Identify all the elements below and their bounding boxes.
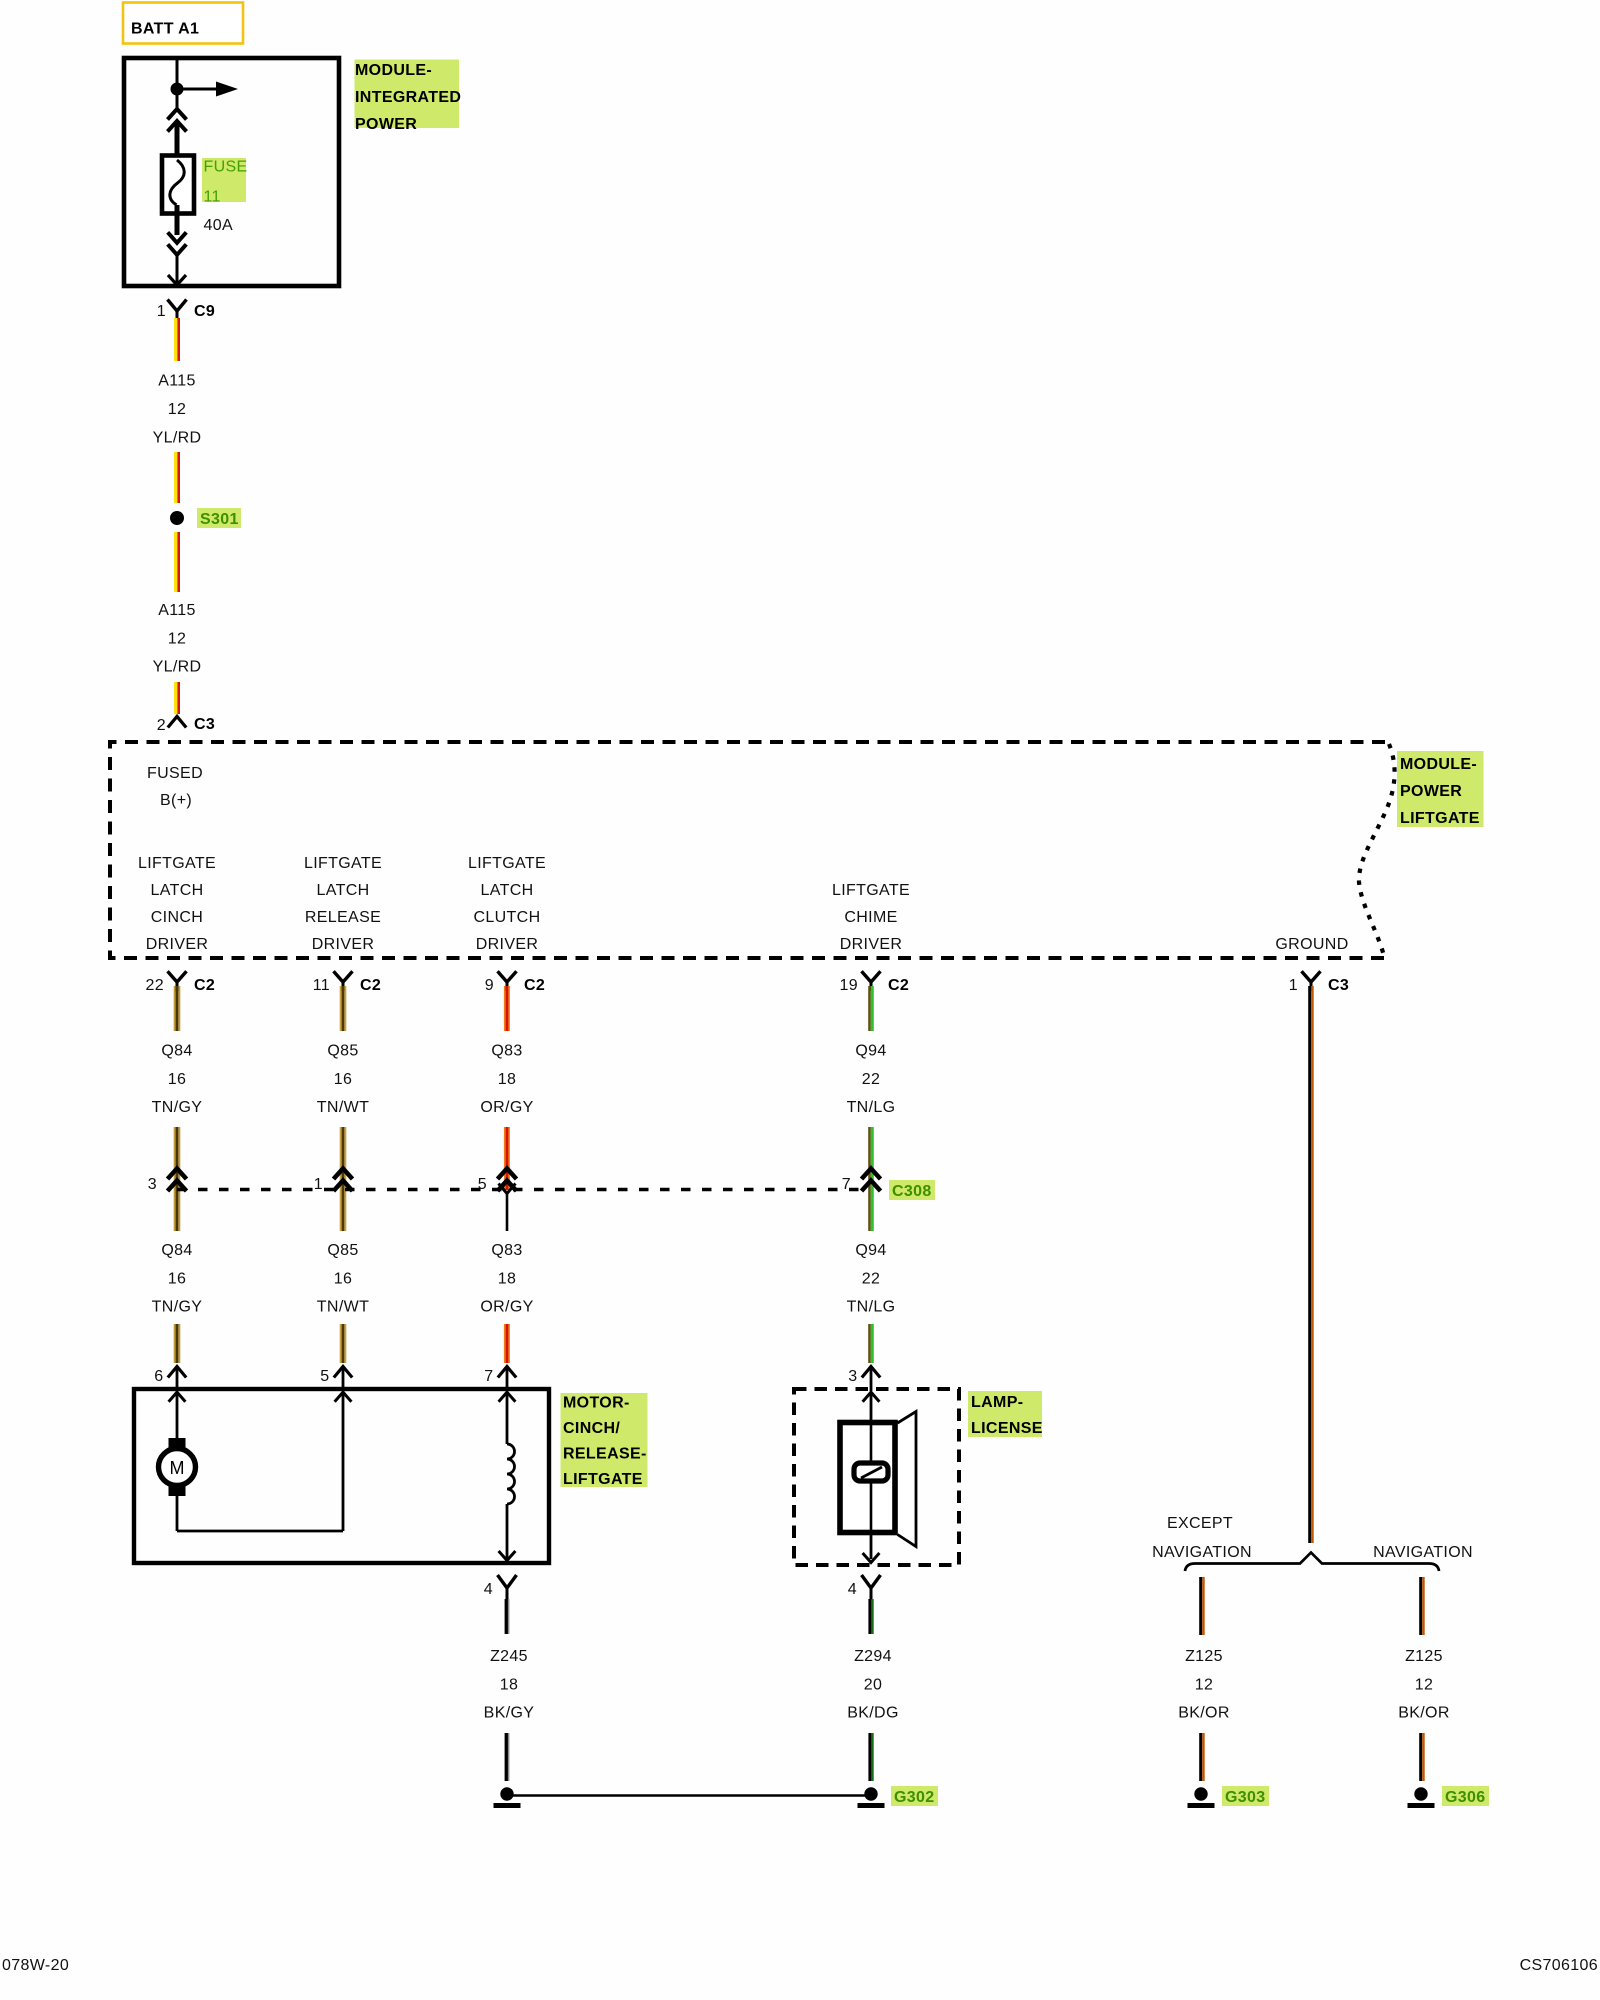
svg-text:A115: A115 — [158, 602, 196, 619]
svg-text:CINCH/: CINCH/ — [563, 1420, 620, 1437]
svg-text:NAVIGATION: NAVIGATION — [1373, 1544, 1473, 1561]
svg-text:18: 18 — [498, 1071, 517, 1088]
svg-text:BK/DG: BK/DG — [847, 1705, 899, 1722]
svg-text:Q84: Q84 — [161, 1242, 192, 1259]
svg-text:LATCH: LATCH — [480, 882, 533, 899]
svg-text:MODULE-: MODULE- — [1400, 756, 1477, 773]
svg-text:11: 11 — [204, 189, 221, 206]
svg-text:C2: C2 — [524, 977, 545, 994]
svg-text:1: 1 — [314, 1176, 323, 1193]
svg-text:DRIVER: DRIVER — [146, 936, 209, 953]
svg-text:LATCH: LATCH — [150, 882, 203, 899]
svg-text:1: 1 — [1289, 977, 1298, 994]
svg-text:7: 7 — [842, 1176, 851, 1193]
svg-text:18: 18 — [500, 1676, 519, 1693]
svg-text:Q83: Q83 — [491, 1242, 522, 1259]
svg-text:Q83: Q83 — [491, 1043, 522, 1060]
svg-text:078W-20: 078W-20 — [2, 1957, 69, 1974]
svg-text:TN/WT: TN/WT — [317, 1299, 369, 1316]
svg-text:INTEGRATED: INTEGRATED — [355, 89, 461, 106]
svg-text:DRIVER: DRIVER — [840, 936, 903, 953]
svg-text:Q85: Q85 — [327, 1242, 358, 1259]
svg-text:MODULE-: MODULE- — [355, 62, 432, 79]
svg-text:Z125: Z125 — [1185, 1648, 1223, 1665]
svg-text:DRIVER: DRIVER — [312, 936, 375, 953]
svg-text:TN/LG: TN/LG — [847, 1299, 896, 1316]
svg-text:LICENSE: LICENSE — [971, 1420, 1043, 1437]
svg-text:LIFTGATE: LIFTGATE — [563, 1471, 643, 1488]
svg-text:RELEASE: RELEASE — [305, 909, 381, 926]
svg-text:16: 16 — [334, 1071, 353, 1088]
svg-text:RELEASE-: RELEASE- — [563, 1446, 647, 1463]
svg-text:FUSED: FUSED — [147, 765, 203, 782]
svg-text:CHIME: CHIME — [844, 909, 897, 926]
svg-text:Q85: Q85 — [327, 1043, 358, 1060]
svg-text:LIFTGATE: LIFTGATE — [138, 855, 216, 872]
svg-text:5: 5 — [320, 1368, 329, 1385]
svg-text:22: 22 — [862, 1071, 881, 1088]
svg-text:7: 7 — [484, 1368, 493, 1385]
svg-text:16: 16 — [168, 1270, 187, 1287]
svg-text:40A: 40A — [204, 217, 234, 234]
svg-text:S301: S301 — [200, 511, 239, 528]
svg-text:Z245: Z245 — [490, 1648, 528, 1665]
svg-text:5: 5 — [478, 1176, 487, 1193]
svg-text:3: 3 — [148, 1176, 157, 1193]
svg-text:OR/GY: OR/GY — [480, 1099, 533, 1116]
svg-text:OR/GY: OR/GY — [480, 1299, 533, 1316]
svg-text:EXCEPT: EXCEPT — [1167, 1515, 1233, 1532]
svg-text:POWER: POWER — [355, 116, 417, 133]
svg-text:LIFTGATE: LIFTGATE — [1400, 810, 1480, 827]
svg-text:2: 2 — [157, 717, 166, 734]
svg-text:Q94: Q94 — [855, 1043, 886, 1060]
svg-text:C9: C9 — [194, 303, 215, 320]
svg-text:B(+): B(+) — [160, 792, 192, 809]
svg-text:FUSE: FUSE — [204, 159, 248, 176]
svg-text:22: 22 — [862, 1270, 881, 1287]
svg-text:A115: A115 — [158, 373, 196, 390]
svg-text:4: 4 — [848, 1581, 857, 1598]
svg-text:12: 12 — [168, 631, 187, 648]
svg-text:Z125: Z125 — [1405, 1648, 1443, 1665]
svg-text:C308: C308 — [892, 1183, 932, 1200]
svg-text:1: 1 — [157, 303, 166, 320]
svg-text:CLUTCH: CLUTCH — [474, 909, 541, 926]
svg-text:TN/LG: TN/LG — [847, 1099, 896, 1116]
svg-text:22: 22 — [146, 977, 165, 994]
svg-text:LAMP-: LAMP- — [971, 1394, 1023, 1411]
svg-text:C3: C3 — [1328, 977, 1349, 994]
svg-text:LIFTGATE: LIFTGATE — [304, 855, 382, 872]
svg-text:TN/GY: TN/GY — [152, 1099, 203, 1116]
svg-text:BK/OR: BK/OR — [1398, 1705, 1450, 1722]
svg-text:6: 6 — [154, 1368, 163, 1385]
svg-text:POWER: POWER — [1400, 783, 1462, 800]
svg-text:MOTOR-: MOTOR- — [563, 1395, 630, 1412]
svg-text:16: 16 — [334, 1270, 353, 1287]
svg-text:LIFTGATE: LIFTGATE — [832, 882, 910, 899]
svg-text:G306: G306 — [1445, 1789, 1486, 1806]
svg-text:BK/GY: BK/GY — [484, 1705, 535, 1722]
svg-text:G303: G303 — [1225, 1789, 1266, 1806]
svg-text:12: 12 — [168, 401, 187, 418]
svg-text:YL/RD: YL/RD — [153, 659, 202, 676]
svg-text:G302: G302 — [894, 1789, 935, 1806]
svg-text:11: 11 — [313, 977, 330, 994]
svg-text:Z294: Z294 — [854, 1648, 892, 1665]
svg-text:C2: C2 — [194, 977, 215, 994]
svg-text:LATCH: LATCH — [316, 882, 369, 899]
svg-text:CS706106: CS706106 — [1520, 1957, 1598, 1974]
svg-text:4: 4 — [484, 1581, 493, 1598]
svg-text:NAVIGATION: NAVIGATION — [1152, 1544, 1252, 1561]
svg-text:C2: C2 — [360, 977, 381, 994]
svg-text:16: 16 — [168, 1071, 187, 1088]
svg-text:9: 9 — [485, 977, 494, 994]
svg-text:C2: C2 — [888, 977, 909, 994]
svg-text:DRIVER: DRIVER — [476, 936, 539, 953]
svg-text:20: 20 — [864, 1676, 883, 1693]
svg-text:YL/RD: YL/RD — [153, 429, 202, 446]
svg-text:TN/WT: TN/WT — [317, 1099, 369, 1116]
svg-text:18: 18 — [498, 1270, 517, 1287]
svg-text:12: 12 — [1195, 1676, 1214, 1693]
svg-text:Q84: Q84 — [161, 1043, 192, 1060]
svg-text:BATT A1: BATT A1 — [131, 21, 199, 38]
svg-text:12: 12 — [1415, 1676, 1434, 1693]
svg-text:19: 19 — [840, 977, 859, 994]
svg-text:C3: C3 — [194, 716, 215, 733]
svg-text:LIFTGATE: LIFTGATE — [468, 855, 546, 872]
svg-text:TN/GY: TN/GY — [152, 1299, 203, 1316]
svg-text:3: 3 — [848, 1368, 857, 1385]
svg-text:Q94: Q94 — [855, 1242, 886, 1259]
svg-text:BK/OR: BK/OR — [1178, 1705, 1230, 1722]
svg-text:CINCH: CINCH — [151, 909, 203, 926]
svg-text:M: M — [170, 1458, 185, 1478]
svg-text:GROUND: GROUND — [1275, 936, 1348, 953]
